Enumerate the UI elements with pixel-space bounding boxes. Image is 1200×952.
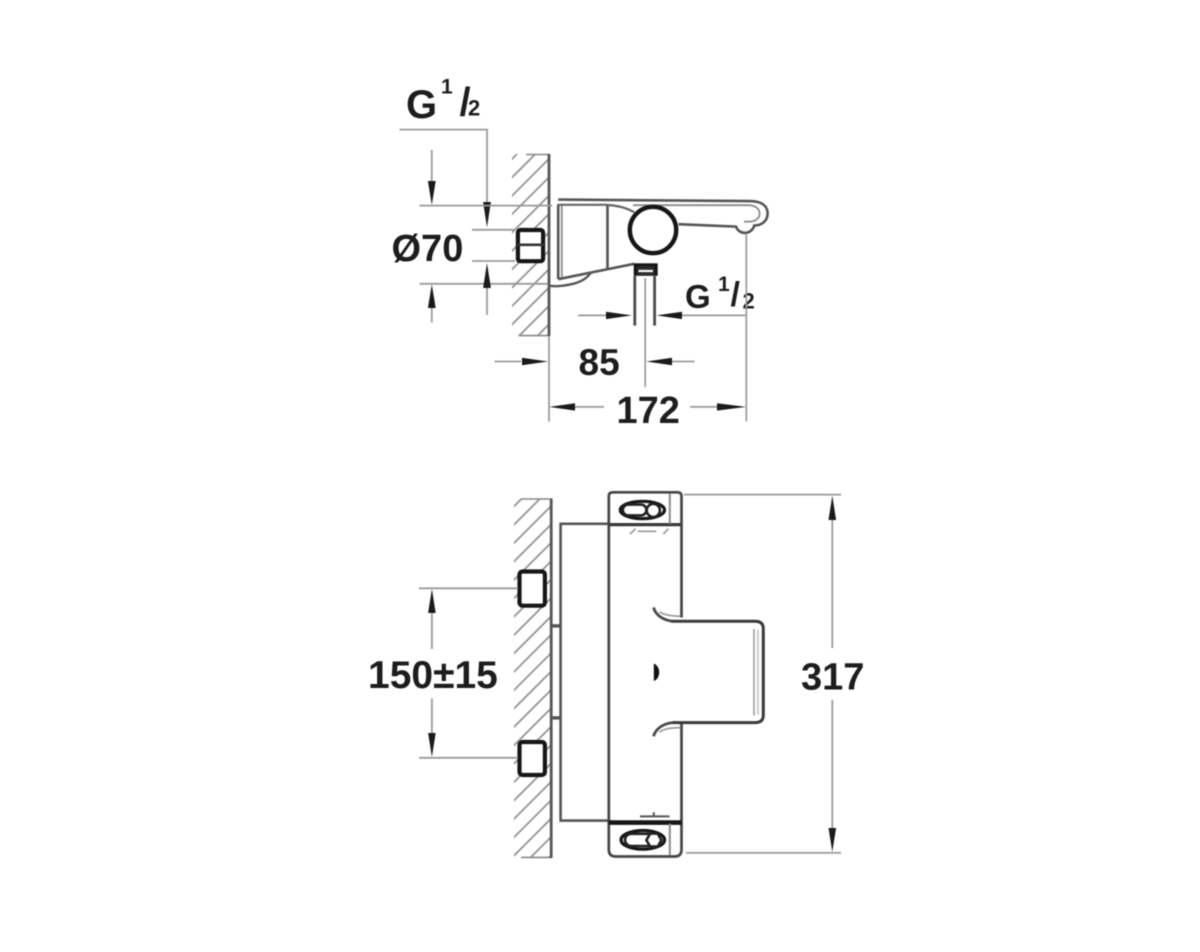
union extension lines — [472, 230, 515, 261]
dimension 85 — [495, 358, 695, 365]
dimension 317 extension lines — [684, 495, 841, 853]
hex union bottom — [520, 742, 545, 775]
svg-text:172: 172 — [617, 390, 680, 432]
dimension 172 — [549, 235, 746, 422]
lever knob circle — [630, 207, 676, 253]
leader line for top G1/2 — [400, 130, 491, 228]
pipe stubs wall to plate — [550, 626, 561, 718]
svg-text:1: 1 — [718, 273, 730, 296]
wall line (top view) — [548, 154, 551, 422]
svg-text:85: 85 — [579, 342, 620, 383]
wall union square (G1/2 connection) — [518, 230, 544, 261]
label G1/2 (bottom right) — [685, 273, 755, 315]
svg-text:/: / — [731, 276, 741, 314]
label G1/2 (top) — [406, 76, 480, 128]
cap inner edge lines — [669, 494, 671, 856]
top cap line — [609, 523, 682, 526]
top escutcheon oval — [620, 501, 664, 518]
dimension 317 arrows — [829, 496, 837, 852]
dimension Ø70 extension lines — [420, 206, 553, 284]
svg-text:317: 317 — [801, 656, 864, 698]
dimension 150±15 extension lines — [419, 588, 518, 758]
svg-text:G: G — [685, 278, 711, 315]
hex union top — [520, 572, 545, 606]
mark above bottom oval — [640, 812, 670, 816]
svg-text:G: G — [406, 83, 437, 127]
bottom cap line (bold) — [609, 820, 682, 825]
shower hose pipe — [635, 276, 655, 326]
svg-text:Ø70: Ø70 — [392, 228, 464, 270]
pipe thread arrows (G1/2 bottom) — [578, 312, 746, 319]
protrusion bottom fillet — [654, 723, 681, 737]
protrusion top fillet — [654, 608, 681, 622]
temperature mark (black) — [654, 664, 659, 681]
bottom escutcheon oval — [621, 831, 665, 850]
small marks under top oval — [630, 529, 669, 534]
dimension 150±15 arrows — [428, 589, 436, 757]
outlet block protrusion — [671, 621, 763, 722]
dimension Ø70 arrows — [428, 150, 436, 323]
pipe centre line — [644, 278, 646, 387]
union up arrow (G1/2 leader tail) — [483, 263, 491, 315]
wall hatch (bottom view) — [514, 499, 552, 859]
escutcheon / wall flange of mixer — [550, 205, 635, 287]
svg-text:2: 2 — [468, 95, 480, 120]
transition curve escutcheon to knob — [608, 205, 635, 212]
svg-text:2: 2 — [743, 289, 755, 314]
svg-text:150±15: 150±15 — [368, 654, 498, 697]
wall line (bottom view) — [550, 499, 553, 859]
wall hatch (top view) — [512, 154, 550, 336]
svg-text:1: 1 — [441, 76, 453, 99]
thermostat body — [609, 492, 682, 856]
hose coupling nut below knob — [636, 265, 656, 275]
spout / handle outer profile — [558, 200, 767, 233]
back mounting plate — [561, 524, 609, 821]
